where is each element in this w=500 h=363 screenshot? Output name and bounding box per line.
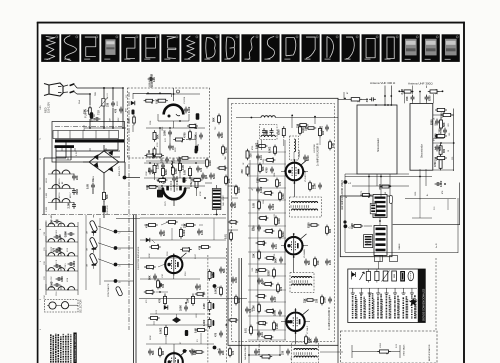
svg-text:470K: 470K (200, 191, 202, 196)
svg-text:15K: 15K (187, 298, 190, 303)
svg-text:470: 470 (279, 181, 282, 186)
svg-text:0.002: 0.002 (263, 321, 265, 326)
svg-text:0.01: 0.01 (321, 126, 324, 131)
svg-text:SAL. VERT: SAL. VERT (222, 195, 225, 206)
svg-text:15K: 15K (195, 134, 198, 139)
svg-text:470: 470 (232, 350, 235, 355)
svg-text:8200: 8200 (307, 155, 310, 161)
wire V1 top (173, 88, 175, 101)
wires zone D (159, 128, 161, 158)
svg-text:0.05: 0.05 (184, 170, 187, 175)
svg-text:470: 470 (115, 108, 118, 113)
wire bar left down (65, 142, 67, 158)
svg-text:1M: 1M (87, 264, 89, 267)
svg-text:B250 C75: B250 C75 (119, 165, 121, 176)
junction mains (89, 93, 91, 95)
svg-text:330: 330 (316, 298, 319, 303)
wire audio section top (139, 298, 247, 300)
IF transformer T2 dashed (290, 197, 322, 217)
svg-text:8200: 8200 (234, 202, 237, 208)
junction dot right of bridge (123, 176, 127, 180)
legend divider (349, 287, 417, 289)
svg-text:15K: 15K (406, 96, 409, 101)
wires IF mid (283, 139, 285, 146)
svg-text:0.05: 0.05 (128, 118, 131, 123)
svg-text:1M: 1M (87, 231, 89, 234)
tube V5 (286, 163, 304, 181)
IF interior dots (294, 159, 296, 161)
transistor stage row 3 (52, 199, 60, 203)
svg-text:330: 330 (179, 156, 182, 161)
wire audio (352, 351, 380, 353)
svg-text:680: 680 (443, 148, 446, 153)
svg-text:AMPLIFICADOR: AMPLIFICADOR (428, 344, 431, 361)
legend small boxes above (375, 256, 383, 262)
coil L5 (171, 161, 173, 171)
svg-text:Sintonizador: Sintonizador (377, 138, 380, 152)
svg-text:C116: C116 (56, 292, 58, 296)
svg-text:0.005: 0.005 (263, 159, 265, 164)
potentiometer P2 (89, 237, 98, 249)
svg-text:CONTRASTE: CONTRASTE (107, 283, 110, 297)
legend small symbols (352, 288, 354, 293)
svg-text:470: 470 (280, 286, 283, 291)
svg-text:0.01: 0.01 (274, 214, 276, 218)
svg-text:.001: .001 (448, 123, 450, 127)
wire transformer right (117, 139, 119, 150)
legend voltage star (409, 298, 418, 307)
svg-text:56K: 56K (106, 194, 109, 199)
svg-text:1500: 1500 (415, 192, 417, 196)
svg-text:15K: 15K (253, 253, 256, 258)
IF link coil 2 (374, 226, 387, 256)
transistor stage row 1 (52, 170, 60, 174)
svg-text:100K: 100K (235, 277, 238, 283)
wires zone F (140, 257, 226, 259)
selector coil row 2 (48, 239, 55, 242)
svg-text:V4 6CB6: V4 6CB6 (314, 143, 316, 153)
link assembly box (340, 196, 392, 257)
selector switch box (45, 300, 79, 313)
oscillogram photo 13 (281, 34, 299, 62)
tube V11 half (163, 188, 185, 199)
svg-text:0.01: 0.01 (275, 244, 278, 249)
svg-text:47: 47 (252, 188, 254, 190)
svg-text:G.B.R POR IMPULSOS: G.B.R POR IMPULSOS (138, 246, 140, 270)
oscillogram photo 5 (121, 34, 139, 62)
small circle test (177, 90, 180, 93)
UHF right rail (453, 109, 455, 172)
oscillogram photo 3 (81, 34, 99, 62)
trap coil dashed box (290, 136, 299, 160)
oscillogram photo 11 (241, 34, 259, 62)
svg-text:22K: 22K (184, 223, 187, 228)
svg-text:8200: 8200 (429, 95, 432, 101)
transistor stage row 2 (52, 185, 60, 189)
oscillogram photo 19 (402, 34, 420, 62)
wires zone F bottom (146, 324, 210, 326)
oscillogram photo 15 (322, 34, 340, 62)
wire mains bottom (77, 93, 90, 95)
svg-text:100K: 100K (324, 297, 327, 303)
svg-text:22K: 22K (228, 178, 231, 183)
border frame right (463, 22, 465, 363)
svg-text:680: 680 (162, 350, 165, 355)
svg-text:0.002: 0.002 (215, 287, 218, 294)
svg-text:330K: 330K (263, 280, 265, 285)
svg-text:470: 470 (53, 247, 56, 252)
svg-text:12: 12 (40, 158, 42, 160)
selector coil row 4 (48, 268, 55, 271)
svg-text:0.01: 0.01 (261, 332, 264, 337)
svg-text:2o AMPLIFICADOR FI: 2o AMPLIFICADOR FI (317, 143, 320, 166)
svg-text:1M: 1M (87, 248, 89, 251)
svg-text:C112 8: C112 8 (56, 260, 58, 266)
svg-text:56K: 56K (152, 350, 155, 355)
svg-text:100K: 100K (209, 160, 212, 166)
svg-text:470: 470 (249, 308, 252, 313)
wires control (98, 226, 114, 232)
T3 windings (292, 277, 312, 278)
svg-text:S1A: S1A (78, 100, 81, 104)
svg-text:0.05: 0.05 (253, 203, 256, 208)
svg-text:220K: 220K (150, 335, 152, 340)
V11 base (162, 187, 164, 189)
svg-text:V6 6AW8: V6 6AW8 (303, 248, 306, 258)
svg-text:400V: 400V (117, 101, 119, 106)
svg-text:100K: 100K (180, 305, 183, 311)
tuner feed wires (412, 102, 414, 104)
dashed vertical line 2 (225, 248, 227, 363)
bottom right of IF extra (337, 345, 339, 363)
svg-text:0.05: 0.05 (332, 143, 335, 148)
selector coil row 1 (48, 223, 55, 226)
tube V12 (165, 256, 182, 273)
svg-text:ALARGADOR: ALARGADOR (151, 73, 154, 87)
svg-text:V8: V8 (291, 358, 293, 360)
wire right verticals (344, 174, 346, 252)
svg-text:56K: 56K (223, 268, 226, 273)
coil L10 (261, 116, 275, 118)
svg-text:330: 330 (250, 153, 253, 158)
svg-text:120K: 120K (149, 253, 151, 258)
svg-text:V401: V401 (380, 342, 382, 348)
IF link coil 1 (373, 195, 387, 218)
zone E wires2 (228, 185, 238, 187)
svg-text:470: 470 (146, 223, 149, 228)
svg-text:C1 .01: C1 .01 (107, 92, 109, 99)
dashed vertical line 1 (207, 255, 209, 363)
oscillogram photo 4 (101, 34, 119, 62)
wire pot bus (85, 215, 87, 290)
svg-text:680: 680 (160, 282, 163, 287)
diode D6 (164, 305, 168, 309)
svg-text:470: 470 (263, 241, 265, 244)
link output wire (393, 224, 460, 226)
wire bridge out (103, 179, 105, 190)
svg-text:50: 50 (198, 144, 200, 146)
wire left col (55, 172, 57, 210)
oscillogram photo 14 (302, 34, 320, 62)
svg-text:330: 330 (59, 264, 62, 269)
tube V7 cathode dot (287, 320, 290, 323)
svg-text:LINEA DEL: LINEA DEL (148, 76, 151, 87)
tuner junction dots (375, 104, 377, 106)
svg-text:56: 56 (274, 296, 276, 298)
transformer T1 core bar (55, 139, 124, 142)
oscillogram photo 20 (422, 34, 440, 62)
svg-text:8200: 8200 (221, 132, 224, 138)
svg-text:CONDICIONES DE MEDIDA: CONDICIONES DE MEDIDA (74, 334, 77, 362)
svg-text:SIGNOS CONVENCIONALES: SIGNOS CONVENCIONALES (422, 288, 425, 321)
svg-text:56K: 56K (152, 169, 155, 174)
audio section dashed box (341, 331, 438, 363)
tube V6 (285, 237, 303, 255)
mains plug P1 (44, 83, 63, 96)
svg-text:4700: 4700 (252, 146, 254, 150)
svg-text:470: 470 (200, 167, 203, 172)
dashed comp box (260, 125, 278, 140)
svg-text:250V: 250V (118, 117, 120, 122)
svg-text:8200: 8200 (163, 230, 166, 236)
svg-text:1200: 1200 (439, 128, 442, 134)
IF box inner dashed (232, 104, 335, 342)
wire IF box bottom exit (294, 344, 296, 345)
svg-text:100K: 100K (238, 187, 241, 193)
junction dots IF top (251, 117, 253, 119)
svg-text:56K: 56K (439, 146, 442, 151)
svg-text:0.05: 0.05 (201, 230, 204, 235)
oscillogram photo 7 (161, 34, 179, 62)
svg-text:0.05: 0.05 (329, 260, 332, 265)
wire zone D bottom (146, 185, 205, 187)
link filter blob (364, 235, 373, 248)
svg-text:56K: 56K (213, 117, 216, 122)
wires osc (146, 160, 205, 162)
svg-text:Antena UHF 300Ω: Antena UHF 300Ω (408, 82, 433, 86)
legend coil symbol (400, 271, 405, 282)
IF grid wires (281, 171, 286, 173)
tube V1 base line (158, 120, 189, 122)
oscillogram photo 16 (342, 34, 360, 62)
svg-text:2.2M: 2.2M (157, 163, 160, 169)
wire power horizontals (84, 127, 126, 129)
test point tuner (344, 180, 348, 184)
svg-text:0.002: 0.002 (160, 327, 163, 334)
legend potentiometer symbol (392, 271, 397, 281)
svg-text:V402 6AQ5: V402 6AQ5 (403, 344, 406, 356)
svg-text:8200: 8200 (213, 173, 216, 179)
svg-text:2700: 2700 (252, 308, 254, 312)
svg-text:L110: L110 (67, 248, 69, 252)
wire IF top (236, 117, 261, 119)
svg-text:0.002: 0.002 (188, 106, 191, 113)
svg-text:8200: 8200 (268, 270, 271, 276)
legend resistor symbol 2 (375, 272, 379, 281)
svg-text:22K: 22K (310, 338, 313, 343)
svg-text:C26 5: C26 5 (65, 263, 67, 268)
svg-text:6.3V: 6.3V (76, 151, 78, 156)
dashed vertical right of link (435, 258, 437, 330)
zone F extra dots (173, 254, 175, 256)
rectifier bridge D1-D4 (89, 151, 119, 173)
svg-text:3a FI: 3a FI (436, 243, 438, 248)
wire agc row (116, 217, 140, 219)
oscillogram photo 17 (362, 34, 380, 62)
svg-text:8200: 8200 (274, 254, 276, 258)
wire link coils (379, 218, 381, 226)
legend labels row2 (356, 299, 358, 319)
svg-text:8200: 8200 (165, 169, 168, 175)
svg-text:100K: 100K (274, 172, 276, 177)
svg-text:56K: 56K (157, 134, 160, 139)
potentiometer P3 (89, 253, 98, 265)
selector coil row 5 (48, 287, 55, 290)
wire mains top (77, 87, 123, 89)
IF box row wires (248, 151, 286, 153)
antenna extra dots (384, 104, 386, 106)
border frame left (37, 22, 39, 363)
svg-text:1200: 1200 (199, 284, 202, 290)
svg-text:C401: C401 (40, 105, 42, 110)
chassis dash-dot vertical (128, 92, 130, 330)
tuner box UHF (410, 104, 433, 171)
thermistor R2 (102, 99, 105, 107)
oscillogram photo 9 (201, 34, 219, 62)
svg-text:2.2M: 2.2M (65, 231, 68, 237)
svg-text:Antena VHF 300 Ω: Antena VHF 300 Ω (370, 81, 396, 85)
tube V13 partial (165, 353, 183, 363)
svg-text:L25 OSC: L25 OSC (51, 276, 53, 284)
oscillogram photo 8 (181, 34, 199, 62)
svg-text:330: 330 (366, 98, 369, 103)
svg-text:22K: 22K (148, 167, 151, 172)
wires zone E upper (144, 162, 205, 164)
oscillogram photo 10 (221, 34, 239, 62)
electrolytic C6 (102, 206, 106, 213)
junction dots power (103, 87, 105, 89)
svg-text:100K: 100K (274, 310, 277, 316)
electrolytic C12 (195, 146, 198, 152)
transformer T1 primary box (53, 131, 119, 139)
svg-text:.047: .047 (110, 118, 112, 122)
svg-text:T1: T1 (40, 138, 42, 140)
legend diode symbol (352, 272, 356, 277)
svg-text:2o AMPLIFICADOR FI: 2o AMPLIFICADOR FI (328, 307, 331, 330)
svg-text:0.01: 0.01 (245, 328, 248, 333)
wire bottom power (103, 201, 105, 205)
selector coil row 3 (48, 253, 55, 256)
legend shield symbol (408, 271, 414, 281)
svg-text:330: 330 (282, 350, 285, 355)
T4 windings (294, 349, 317, 350)
svg-text:56K: 56K (443, 122, 446, 127)
oscillogram photo 21 (442, 34, 460, 62)
transformer T1 winding lines (56, 150, 120, 152)
electrolytic C11 (196, 113, 200, 120)
bus double line vertical (133, 215, 135, 363)
oscillogram photo 12 (261, 34, 279, 62)
svg-text:TR2 AF116: TR2 AF116 (58, 193, 61, 202)
wire to transformer (89, 119, 91, 128)
switch S1 contacts (63, 85, 68, 87)
svg-text:SALIDA VIDEO: SALIDA VIDEO (244, 345, 247, 360)
svg-text:15K: 15K (317, 260, 320, 265)
svg-text:0.002: 0.002 (183, 229, 186, 236)
svg-text:L114: L114 (67, 278, 69, 282)
svg-text:CABLE: CABLE (398, 243, 401, 250)
svg-text:470: 470 (199, 245, 202, 250)
diode D5 (146, 238, 150, 242)
oscillogram photo 2 (61, 34, 79, 62)
IF tube stem wires (293, 160, 295, 163)
svg-text:V7 6AL5: V7 6AL5 (306, 325, 309, 334)
wire R60 (338, 98, 349, 100)
svg-text:100K: 100K (91, 116, 94, 122)
svg-text:470: 470 (215, 332, 218, 337)
link test dot (344, 224, 348, 228)
svg-text:220: 220 (452, 157, 454, 160)
legend labels (352, 295, 354, 319)
component blob D (185, 330, 188, 336)
sync box left column diode (131, 101, 135, 105)
svg-text:AF117: AF117 (69, 193, 72, 198)
wires up to strip (150, 74, 152, 88)
chassis dash-dot horizontal (42, 214, 226, 216)
selector motor M1 (49, 302, 56, 309)
wire secondary down left (55, 148, 57, 172)
wires zone E lower (140, 217, 226, 219)
coil L11 (261, 135, 275, 137)
svg-text:110-125V: 110-125V (47, 102, 51, 113)
svg-text:22K: 22K (76, 175, 79, 180)
svg-text:56K: 56K (308, 260, 311, 265)
svg-text:0.01: 0.01 (225, 234, 228, 239)
T2 windings (292, 202, 318, 203)
solid vertical pair right of F (238, 258, 240, 363)
svg-text:2.2M: 2.2M (276, 323, 279, 329)
svg-text:22K: 22K (222, 350, 225, 355)
svg-text:100K: 100K (146, 171, 148, 176)
zone E extra dots (149, 162, 151, 164)
wire selector bus (45, 222, 47, 295)
svg-text:100+100: 100+100 (107, 205, 109, 214)
svg-text:1000: 1000 (259, 344, 261, 348)
IF box outer border (228, 98, 338, 345)
test dot audio (183, 349, 187, 353)
tuner area wires2 (345, 176, 432, 178)
test point +3 (213, 346, 217, 350)
svg-text:15K: 15K (305, 126, 308, 131)
svg-text:TER: TER (95, 91, 97, 96)
svg-text:0.05: 0.05 (252, 268, 254, 272)
svg-text:0.05: 0.05 (182, 165, 185, 170)
svg-text:TRAMPA: TRAMPA (298, 150, 301, 158)
oscillogram photo 1 (41, 34, 59, 62)
svg-text:22K: 22K (304, 298, 307, 303)
svg-text:470: 470 (159, 298, 162, 303)
svg-text:22K: 22K (265, 130, 268, 135)
svg-text:V5 12BY7A: V5 12BY7A (304, 171, 307, 182)
svg-text:V1 6X4: V1 6X4 (184, 96, 186, 104)
svg-text:L: L (40, 261, 42, 262)
svg-text:330: 330 (241, 169, 244, 174)
tube V1 half (164, 105, 184, 115)
svg-text:4700: 4700 (184, 132, 187, 138)
svg-text:C108 5: C108 5 (56, 230, 58, 236)
dash-dot line above bar (55, 126, 122, 128)
svg-text:1200: 1200 (175, 168, 178, 174)
